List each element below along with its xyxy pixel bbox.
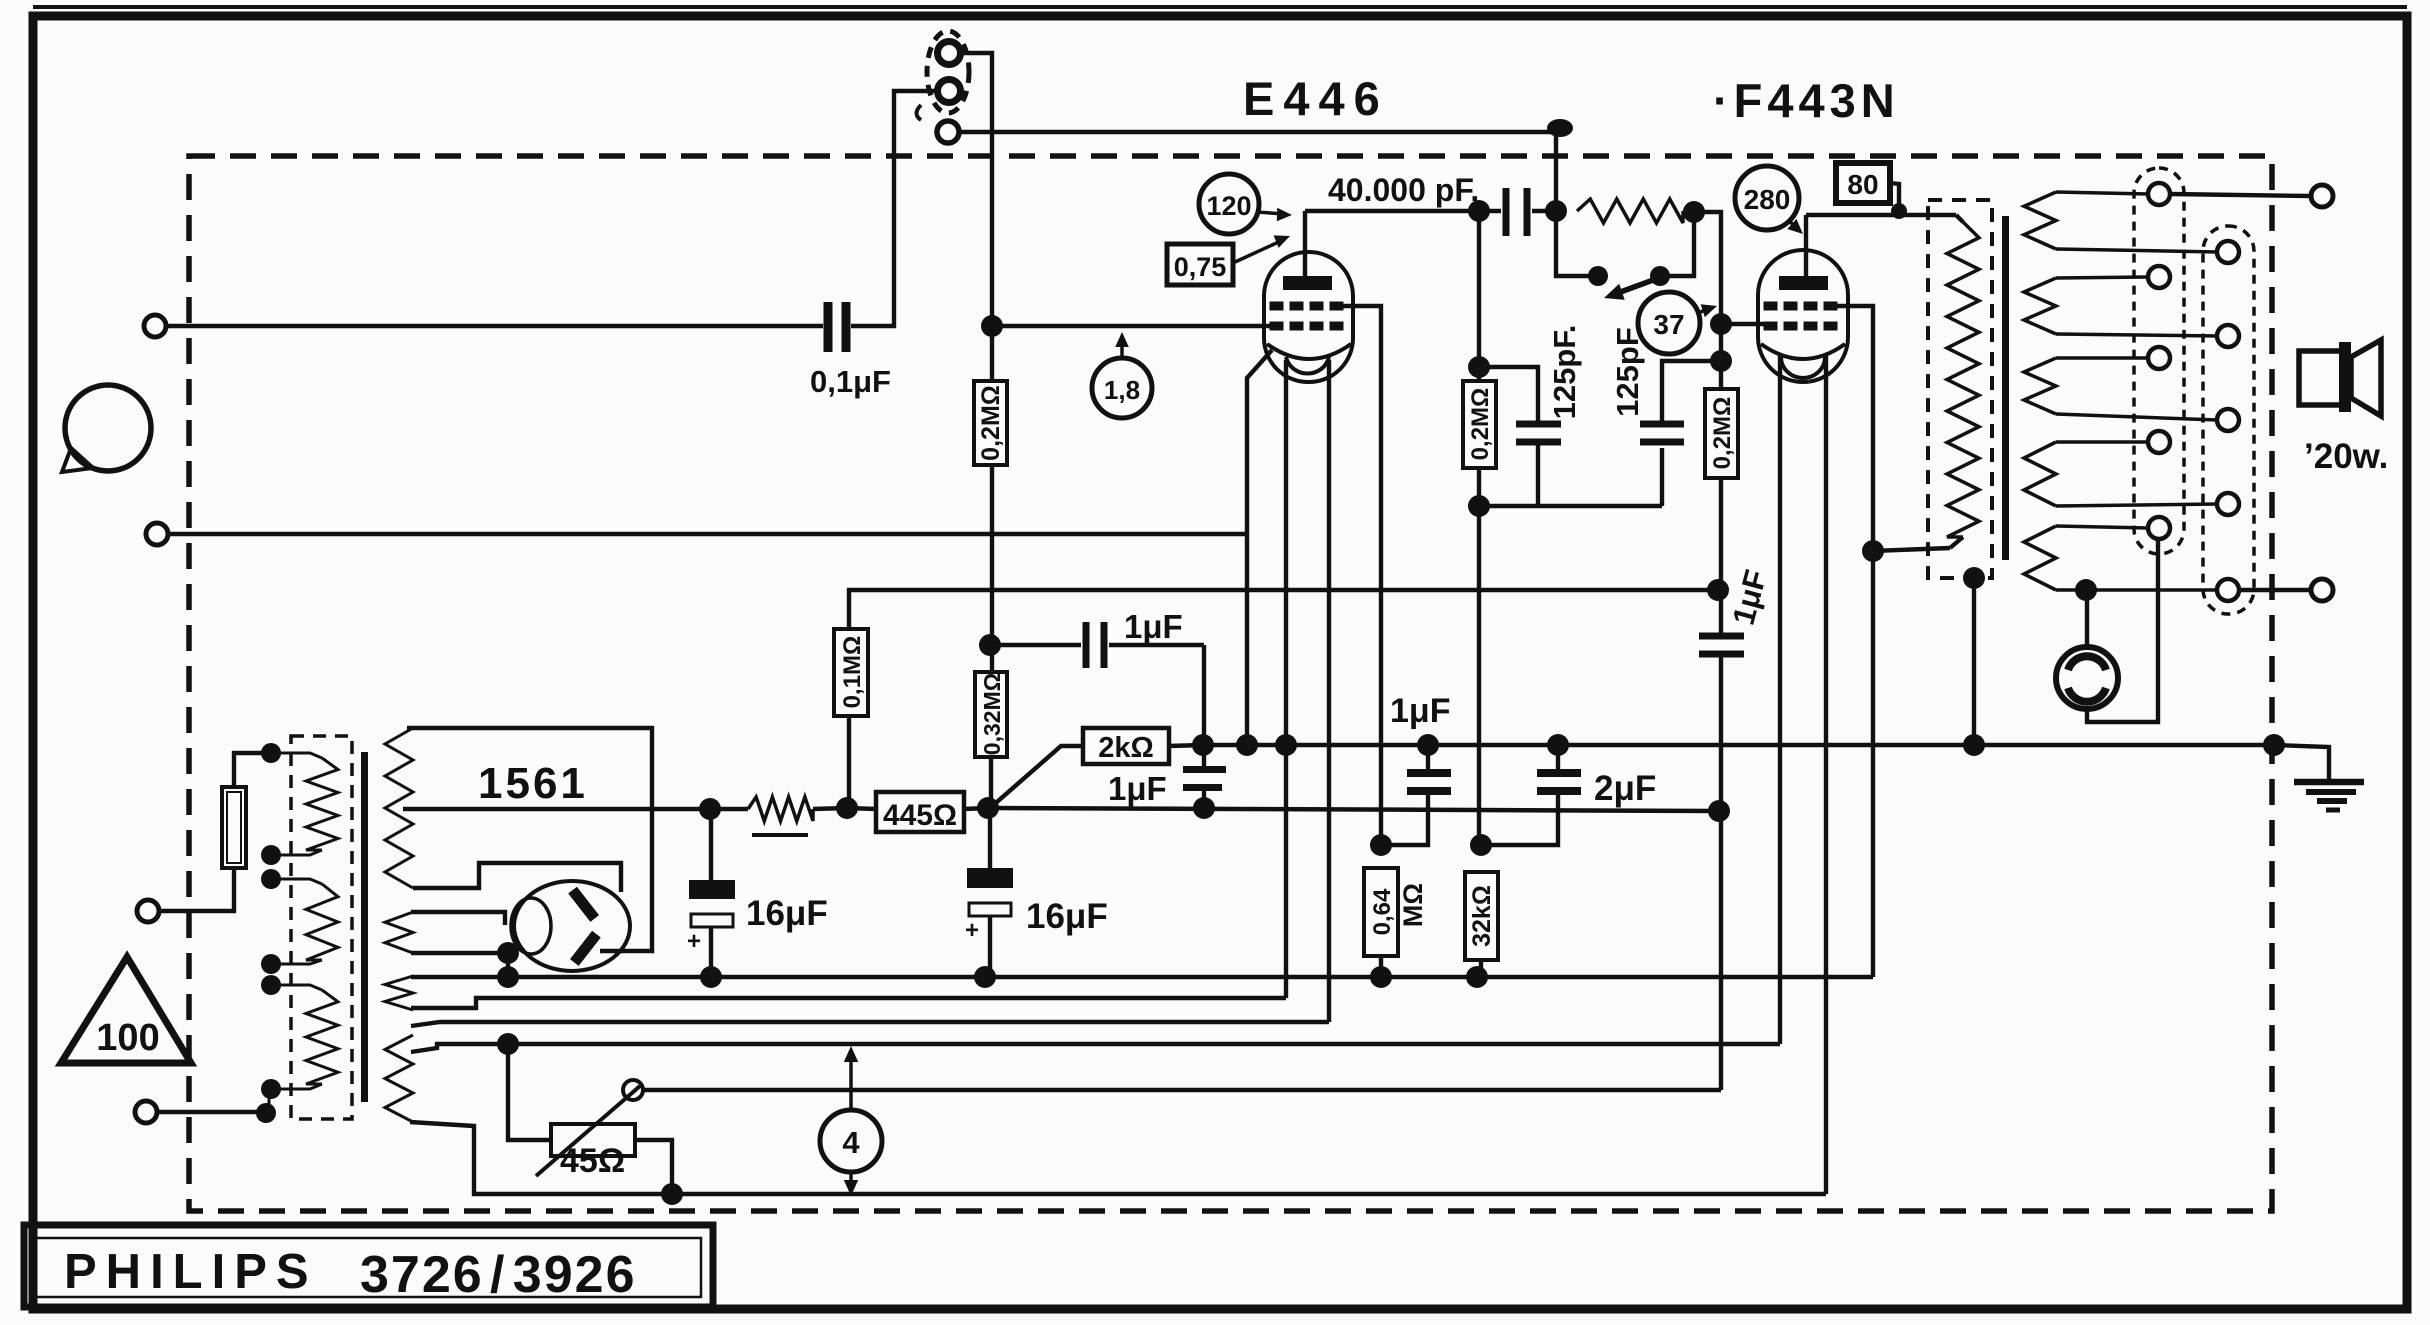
bus wire cathode 445 node: [988, 808, 1718, 811]
svg-text:MΩ: MΩ: [1398, 883, 1428, 927]
speaker matching terminals left column: [2148, 183, 2170, 539]
output transformer core: [2002, 216, 2009, 560]
svg-text:1μF: 1μF: [1124, 608, 1183, 645]
node dot g2 F443N: [1710, 313, 1732, 335]
tube E446 anode: [1283, 211, 1332, 290]
wire bus808 to transformer: [403, 807, 710, 811]
boxed 0.75: [1167, 235, 1290, 285]
tube F443N lead 2: [1824, 354, 1828, 1194]
tube F443N envelope: [1758, 250, 1848, 382]
capacitor 0.1uF: [828, 302, 846, 352]
svg-text:125pF.: 125pF.: [1547, 325, 1582, 420]
node dot zigzag right: [1683, 201, 1705, 223]
svg-text:37: 37: [1653, 309, 1684, 340]
svg-text:2kΩ: 2kΩ: [1098, 732, 1154, 764]
resistor 0.2Mohm R2: [1463, 381, 1496, 468]
bus wire C: [411, 1022, 1329, 1026]
wire R1 chain: [990, 326, 994, 672]
wire zigzag to 0.2M line: [1694, 212, 1721, 361]
wire anode node down: [1477, 211, 1481, 381]
node dot 40000pF right: [1545, 200, 1567, 222]
earth terminal A3: [937, 121, 959, 143]
svg-text:0,2MΩ: 0,2MΩ: [1467, 388, 1494, 461]
wire node506: [1479, 448, 1662, 506]
power transformer secondary fil1: [385, 912, 413, 953]
wire E446 grid2 row: [992, 324, 1272, 328]
node dot 0.64 top: [1370, 834, 1392, 856]
aerial terminal A1: [938, 42, 961, 65]
variable resistor 45ohm: [497, 1033, 683, 1205]
label 2uF: [1594, 769, 1656, 808]
tube F443N cathode: [1761, 344, 1845, 378]
output transformer primary: [1947, 215, 1979, 548]
node dot 125p1 bottom: [1468, 495, 1490, 517]
label 1uF c: [1726, 566, 1774, 628]
wire HV bottom to rectifier anode1: [413, 863, 621, 892]
node dot anode row: [1468, 200, 1490, 222]
svg-text:+: +: [965, 917, 979, 944]
svg-text:’20w.: ’20w.: [2304, 437, 2388, 476]
bus wire B: [411, 998, 1286, 1008]
power transformer primary: [269, 753, 338, 1113]
resistor 0.32Mohm: [975, 672, 1007, 757]
node dot 0.2M3 bottom: [1707, 579, 1729, 601]
wire nodeA down: [1477, 506, 1481, 845]
node dot 2uF top: [1547, 734, 1569, 756]
wire down from A3 run: [1554, 133, 1558, 211]
switch contact wires: [1556, 211, 1694, 276]
input terminal 2: [146, 523, 168, 545]
wire E446 grid1 to right: [1333, 306, 1381, 845]
tube E446 cathode lead diagonal: [1247, 350, 1272, 745]
capacitor 1uF c: [1699, 636, 1744, 1090]
label 1uF d: [1390, 692, 1450, 730]
svg-text:120: 120: [1206, 191, 1251, 221]
mains terminal L: [137, 900, 159, 922]
svg-text:·F443N: ·F443N: [1713, 74, 1900, 127]
speaker: [2299, 340, 2381, 416]
node dots cathode leads: [1236, 734, 1297, 756]
svg-text:3726 / 3926: 3726 / 3926: [360, 1246, 637, 1304]
label 1uF a: [1124, 608, 1183, 645]
bus wire heater A: [411, 975, 1873, 980]
mains terminal N: [135, 1101, 266, 1123]
resistor 0.64Mohm: [1364, 868, 1428, 977]
circled 280: [1735, 166, 1803, 234]
node dot 125p2 top: [1710, 350, 1732, 372]
label 125pF 1: [1547, 325, 1582, 420]
svg-text:0,75: 0,75: [1174, 252, 1227, 282]
node dot shield ground: [1963, 734, 1985, 756]
bus wire E filament: [410, 1122, 1826, 1194]
fuse: [159, 753, 269, 911]
triangle 100 mains marker: [61, 957, 191, 1063]
resistor 0.2Mohm R3: [1705, 361, 1738, 636]
capacitor 1uF b: [1183, 766, 1226, 819]
inner dashed border: [189, 156, 2272, 1211]
capacitor 2uF: [1481, 745, 1581, 845]
node dot grid2: [981, 315, 1003, 337]
tube E446 grid rows: [1270, 302, 1343, 330]
ground symbol: [2263, 734, 2364, 810]
circled 1.8: [1092, 332, 1152, 418]
svg-text:0,1μF: 0,1μF: [810, 364, 891, 399]
node dot 2k right: [1192, 734, 1214, 756]
capacitor 16uF 2: [965, 808, 1013, 977]
bus wire D: [411, 1044, 1780, 1052]
svg-text:2μF: 2μF: [1594, 769, 1656, 808]
boxed 80: [1836, 163, 1907, 219]
capacitor 40000pF: [1483, 188, 1556, 236]
svg-text:0,2MΩ: 0,2MΩ: [977, 385, 1005, 461]
wire filament top: [411, 912, 505, 925]
label E446: [1243, 72, 1389, 125]
label 16uF 1: [746, 894, 828, 933]
capacitor 125pF 1: [1479, 367, 1561, 506]
power transformer secondary HV: [385, 728, 413, 888]
wire HV top to rectifier anode2: [407, 728, 652, 951]
svg-text:280: 280: [1744, 184, 1791, 215]
input terminal 1: [144, 315, 166, 337]
pilot lamp: [2056, 540, 2158, 722]
node dot 1uF tap: [979, 634, 1001, 656]
circled 37: [1638, 292, 1717, 354]
wire A3 to top right: [960, 119, 1573, 137]
dashed loop right column: [2203, 226, 2254, 614]
svg-text:80: 80: [1847, 169, 1878, 200]
title text PHILIPS 3726/3926: [64, 1245, 637, 1304]
svg-text:1,8: 1,8: [1104, 375, 1140, 405]
svg-text:32kΩ: 32kΩ: [1468, 885, 1496, 947]
circled 120: [1199, 174, 1292, 234]
svg-text:E446: E446: [1243, 72, 1389, 125]
switch contacts and arm: [1588, 266, 1670, 300]
svg-text:4: 4: [842, 1125, 860, 1160]
svg-text:125pF: 125pF: [1610, 327, 1645, 417]
circled 4: [820, 1046, 882, 1196]
label 1561: [478, 759, 588, 808]
node dot B+ filter: [1708, 800, 1730, 822]
tube F443N lead 1: [1778, 354, 1782, 1044]
svg-text:+: +: [687, 928, 701, 955]
resistor 2kohm: [990, 728, 1203, 808]
bus A dots: [497, 966, 1488, 988]
svg-text:0,1MΩ: 0,1MΩ: [839, 636, 866, 709]
wire input1 to 0.1uF: [166, 324, 823, 328]
resistor 445ohm: [847, 792, 988, 832]
node dot 32k top: [1470, 834, 1492, 856]
svg-text:40.000 pF.: 40.000 pF.: [1328, 172, 1479, 208]
secondary tap leads: [2056, 192, 2218, 590]
wire 0.1uF to aerial terminal: [851, 91, 936, 326]
title block box: [24, 1225, 713, 1307]
tube E446 lead C: [1327, 360, 1331, 1022]
power transformer secondary fil3: [385, 1035, 413, 1122]
output transformer secondary windings: [2024, 192, 2056, 590]
speaker matching terminals right column: [2217, 241, 2239, 601]
node dot 1uF d top: [1417, 734, 1439, 756]
capacitor 1uF a: [990, 622, 1204, 668]
wire 0.32M to node445: [989, 757, 993, 808]
resistor 32kohm: [1465, 872, 1498, 977]
dashed loop left column: [2134, 168, 2184, 554]
aerial connector dashed surround: [917, 31, 970, 120]
rectifier tube 1561: [511, 881, 630, 971]
power transformer dashed box: [291, 736, 352, 1119]
wire F443N anode row: [1806, 213, 1956, 217]
svg-text:1μF: 1μF: [1108, 770, 1167, 807]
wire input2 to E446 cathode lead: [168, 532, 1247, 536]
tube E446 cathode: [1267, 344, 1351, 374]
svg-text:445Ω: 445Ω: [883, 799, 957, 832]
label 40.000 pF: [1328, 172, 1479, 208]
svg-text:0,32MΩ: 0,32MΩ: [979, 673, 1005, 755]
power transformer core: [361, 752, 368, 1102]
bus wire wiper: [641, 1088, 1721, 1092]
label 125pF 2: [1610, 327, 1645, 417]
microphone symbol: [62, 385, 151, 472]
node dot screen: [1862, 540, 1884, 562]
label 1uF b: [1108, 770, 1167, 807]
tube F443N anode: [1779, 215, 1828, 290]
wiper terminal: [623, 1080, 643, 1100]
resistor 0.1Mohm: [834, 590, 1716, 808]
svg-text:1μF: 1μF: [1390, 692, 1450, 730]
wire screen to primary: [1873, 548, 1950, 551]
tube E446 envelope: [1264, 252, 1353, 382]
output transformer shield dashed: [1928, 200, 1992, 578]
wire filament bottom: [411, 942, 519, 977]
wire A1 down to grid node: [962, 53, 992, 326]
label 20W: [2304, 437, 2388, 476]
node dot 445 left: [836, 797, 858, 819]
wire E446 anode row: [1305, 209, 1479, 213]
ground bus wire: [1203, 743, 2274, 748]
label 0.1uF: [810, 364, 891, 399]
aerial terminal A2: [938, 80, 961, 103]
output terminal bottom: [2239, 579, 2333, 601]
label 16uF 2: [1026, 897, 1108, 936]
label F443N: [1713, 74, 1900, 127]
svg-text:0,64: 0,64: [1369, 888, 1396, 935]
output terminal top: [2170, 185, 2333, 207]
node dot 125p1 top: [1468, 356, 1490, 378]
capacitor 125pF 2: [1640, 361, 1721, 442]
wire shield to ground bus: [1972, 578, 1976, 745]
svg-text:1561: 1561: [478, 759, 588, 808]
resistor R-grid zigzag: [1577, 199, 1694, 223]
svg-text:45Ω: 45Ω: [560, 1142, 625, 1180]
power transformer secondary fil2: [385, 976, 413, 1010]
tube F443N grid rows: [1764, 302, 1837, 330]
svg-text:0,2MΩ: 0,2MΩ: [1709, 397, 1736, 470]
node dot 16uF1 top: [699, 798, 721, 820]
svg-text:16μF: 16μF: [1026, 897, 1108, 936]
node dot 445: [977, 797, 999, 819]
node dot lamp tap: [2075, 579, 2097, 601]
svg-text:16μF: 16μF: [746, 894, 828, 933]
resistor hum zigzag: [710, 797, 847, 835]
resistor 0.2Mohm R1: [974, 381, 1007, 465]
capacitor 1uF d: [1381, 745, 1451, 845]
label 45ohm: [560, 1142, 625, 1180]
node dot shield: [1963, 567, 1985, 589]
wire cap1uF down: [1202, 645, 1206, 766]
tube E446 lead B: [1284, 360, 1288, 998]
primary tap dots: [256, 743, 281, 1123]
wire F443N grid1 to screen line: [1830, 306, 1873, 977]
capacitor 16uF 1: [687, 809, 735, 977]
wire F443N grid2 row: [1721, 322, 1766, 326]
svg-text:PHILIPS: PHILIPS: [64, 1245, 318, 1299]
svg-text:100: 100: [96, 1017, 159, 1059]
